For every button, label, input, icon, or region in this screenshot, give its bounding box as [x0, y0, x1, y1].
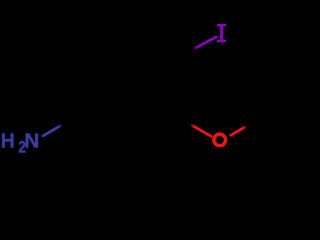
wire: O-CH3 half bond (carbon side, black) — [246, 117, 262, 127]
bond N half (blue) — [42, 124, 63, 136]
label O (methoxy oxygen, drawn as bold ring) — [214, 134, 226, 145]
wire: C-I half bond (carbon side, black) — [168, 50, 193, 63]
label I (iodine, serif-style bars) — [217, 24, 226, 42]
wire: C-N half bond (carbon side, black) — [63, 111, 84, 124]
wire: C-O half bond (carbon side, black) — [169, 111, 190, 124]
bond O-methyl half (red) — [230, 126, 247, 136]
svg-text:N: N — [24, 130, 39, 153]
bond I half (purple) — [193, 36, 218, 49]
benzene ring (black bonds, invisible on black) — [84, 39, 168, 135]
bond O-ring half (red) — [190, 124, 212, 137]
svg-text:H: H — [1, 130, 15, 152]
